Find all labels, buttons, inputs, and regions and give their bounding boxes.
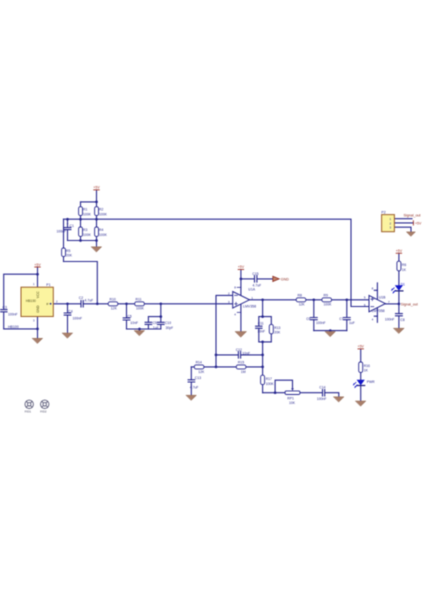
ground under C5 bar [134,331,144,336]
wire U1B output [385,303,399,305]
svg-text:FID2: FID2 [40,410,47,414]
junction C6/C7 ground bar [329,329,332,332]
svg-text:4: 4 [234,312,236,316]
wire R14/R15 row [191,366,262,368]
svg-text:U1B: U1B [379,296,386,300]
LED D1 [392,283,405,293]
power +5V U1A [238,265,245,270]
wire ground stub under R4 [96,241,98,247]
wire main row P1.IF to C2 [53,303,81,305]
svg-text:+5V: +5V [415,222,422,226]
svg-text:VCC: VCC [36,291,40,299]
power GND arrow at C15 [273,276,289,281]
wire P2 pin1 [394,218,412,220]
ground under C8 [394,328,405,333]
svg-text:R4: R4 [99,228,103,232]
svg-text:1K: 1K [402,268,407,272]
svg-text:100K: 100K [99,212,108,216]
svg-text:1uF: 1uF [349,321,355,325]
svg-text:100K: 100K [324,303,333,307]
junction R3 bottom [79,239,82,242]
wire feedback loop to C12 row [262,342,264,367]
svg-text:100K: 100K [83,233,92,237]
svg-text:P2: P2 [381,211,385,215]
junction C1 top [66,218,69,221]
wire U1B power ticks [374,290,377,316]
svg-text:+5V: +5V [358,345,365,349]
wire C5 branch upper [126,304,128,318]
GROUND SYMBOLS [32,232,415,406]
capacitor C4 [64,313,71,315]
svg-text:20K: 20K [66,254,73,258]
svg-text:100nF: 100nF [316,321,326,325]
svg-text:100K: 100K [136,307,145,311]
junction C5 tap [125,302,128,305]
svg-text:10nF: 10nF [242,351,250,355]
svg-text:C11: C11 [258,321,264,325]
resistor R2 [95,207,99,216]
wire U1B power column [376,283,378,322]
svg-text:12K: 12K [299,303,306,307]
wire main row C2 to U1A pin3 [83,303,232,305]
wire PWR +5V to R16 [360,349,362,362]
capacitor C3 [0,310,7,312]
wire C15 to GND port [257,278,273,280]
junction R1 bottom [79,218,82,221]
wire C5 branch lower [126,320,128,329]
svg-text:100nF: 100nF [385,318,395,322]
svg-text:12K: 12K [198,370,205,374]
svg-text:R1: R1 [83,208,87,212]
ground under U1A [235,332,246,338]
wire C13 branch upper [190,367,192,380]
svg-text:4.7uF: 4.7uF [253,284,262,288]
wire C7 branch upper [346,300,348,318]
connector P2 [381,211,394,232]
resistor R14 [194,365,204,369]
svg-text:R10: R10 [110,298,116,302]
junction C7 tap [345,298,348,301]
svg-text:30pF: 30pF [166,326,174,330]
junction bias tap [96,302,99,305]
junction feedback loop top [261,315,264,318]
wire C10 branch upper [160,304,162,322]
resistor R6 [397,261,401,271]
wire left column to R5 [63,219,65,261]
wire P1 left loop lower from C3 [4,312,38,329]
wire feedback loop right with R13 [263,317,272,342]
power +5V P2 pin2 bar [413,220,422,225]
wire P2 pin2 to +5V bar [394,222,413,224]
svg-text:C10: C10 [165,321,171,325]
svg-text:20K: 20K [274,331,281,335]
wire C4 branch lower to ground [67,315,69,333]
svg-text:C8: C8 [400,318,404,322]
junction R2 bottom [95,218,98,221]
svg-text:C5: C5 [127,314,131,318]
svg-text:C9: C9 [153,321,157,325]
op-amp U1B [364,287,390,322]
junction P1 bottom pin [36,328,39,331]
DIODES [353,283,405,388]
svg-text:100nF: 100nF [8,312,18,316]
wire R5 jog down to main row [64,262,98,304]
svg-text:HB100: HB100 [26,299,36,303]
wire C13 branch lower to ground [190,382,192,395]
wire U1A decoupling row to C15 [241,278,254,280]
capacitor C10 [158,322,165,324]
wire R17 branch [262,367,264,393]
junction R15 row left [215,366,218,369]
wire P1 bottom pin to ground [37,317,39,339]
svg-text:+5V: +5V [396,249,403,253]
wire ground stub C6/C7 bar [329,330,331,333]
svg-text:C7: C7 [339,317,343,321]
wire RP1 wiper loop [275,380,292,393]
svg-text:C4: C4 [68,309,72,313]
junction ground bar left [138,328,141,331]
ground under R4 [91,247,101,252]
wire feedback loop left lower [259,329,263,342]
svg-text:C1: C1 [70,224,74,228]
junction U1A output [261,298,264,301]
svg-text:10nF: 10nF [257,329,265,333]
svg-text:R3: R3 [83,228,87,232]
svg-text:3: 3 [33,318,35,322]
wire P2 pin3 to ground [394,227,411,232]
potentiometer RP1 [285,387,300,405]
capacitor C14 [323,390,325,396]
junction P1 top pin [36,273,39,276]
resistor R13 [269,324,273,333]
svg-text:4: 4 [372,317,374,321]
svg-text:10K: 10K [289,401,296,405]
svg-text:10nF: 10nF [130,321,138,325]
wire C4 branch upper [67,304,69,313]
svg-text:+5V: +5V [34,263,41,267]
svg-text:1K: 1K [364,369,369,373]
wire P1 left loop upper to C3 [4,274,38,309]
svg-text:Signal_out: Signal_out [404,213,421,217]
svg-text:1: 1 [33,282,35,286]
ground under C6/C7 bar [325,332,335,337]
junction C9 loop top [159,315,162,318]
svg-text:LMV358: LMV358 [243,305,256,309]
svg-text:C3: C3 [3,306,7,310]
resistor R11 [135,302,145,306]
svg-text:100K: 100K [99,233,108,237]
svg-text:+5V: +5V [93,186,100,190]
svg-text:R9: R9 [324,294,328,298]
wire R1 column [80,202,82,219]
junction divider top [95,201,98,204]
svg-text:Signal_out: Signal_out [401,303,418,307]
wire C12 row right [241,354,263,356]
svg-text:FID1: FID1 [25,410,32,414]
svg-text:R17: R17 [266,377,272,381]
ground P2 pin3 [407,232,416,236]
wire U1A power column [240,270,242,332]
capacitor C15 [255,276,257,282]
wire ground stub mid bar [139,329,141,331]
wire C12 row left [216,354,238,356]
wire C10 branch lower [160,325,162,329]
wire C8 branch lower to ground [398,316,400,328]
junction U1B output node [398,303,401,306]
svg-text:C2: C2 [79,296,83,300]
svg-text:12K: 12K [111,307,118,311]
svg-text:R11: R11 [136,298,142,302]
junction C6 tap [312,298,315,301]
svg-text:R15: R15 [238,361,244,365]
wire R16 to D2 [360,372,362,379]
svg-text:R8: R8 [298,294,302,298]
wire R2 column [96,202,98,219]
LED D2 PWR [353,380,375,388]
capacitor C11 [256,326,262,328]
wire C6 branch lower [313,320,315,331]
capacitor C13 [188,380,195,382]
wire C14 to ground [325,393,339,397]
ground under PWR LED [356,401,366,406]
wire U1A pin2 feedback rail [216,295,233,367]
svg-text:R2: R2 [99,208,103,212]
svg-text:GND: GND [36,305,40,313]
wire C6/C7 ground bar [314,330,347,332]
connector P1 HB100 module [8,282,58,329]
capacitor C7 [343,318,350,320]
svg-text:C13: C13 [195,376,201,380]
resistor R8 [296,298,306,302]
resistor R15 [236,365,246,369]
ground under C13 [186,395,196,400]
junction C12 row left [215,354,218,357]
wire long top rail to U1B pin6 [64,219,370,306]
capacitor C5 [123,318,130,320]
wire C9 loop lower [147,325,149,329]
svg-text:D1: D1 [401,283,405,287]
wire +5V stub to divider top [96,190,98,202]
svg-text:R16: R16 [364,364,370,368]
wire divider bottom bar [68,240,97,242]
svg-text:R6: R6 [402,263,406,267]
CAPACITOR PLATES [0,228,402,396]
capacitor C1 [64,228,71,230]
svg-text:R14: R14 [196,361,202,365]
svg-text:100K: 100K [83,212,92,216]
power +5V PWR [358,345,365,350]
wire C5/C9/C10 ground bar [127,328,161,330]
wire R4 branch [96,219,98,240]
wire R8 to R9 [306,299,322,301]
wire D1 to output node [398,291,400,304]
svg-text:C6: C6 [306,317,310,321]
svg-text:GND: GND [281,277,289,281]
svg-text:PWR: PWR [367,380,375,384]
wire R6 to D1 [398,271,400,285]
power +5V P1 [34,263,41,268]
resistor R5 [62,248,66,257]
wire +5V stub to P1 top pin [37,267,39,287]
svg-text:1uF: 1uF [153,326,159,330]
svg-text:100uF: 100uF [57,229,67,233]
resistor R1 [79,207,83,216]
resistor R3 [79,227,83,236]
capacitor C8 [396,314,403,316]
junction C4 tap [66,302,69,305]
wire U1A output to feedback loop [262,300,264,317]
wire C7 branch lower [346,320,348,331]
svg-text:2: 2 [56,300,58,304]
capacitor C2 [81,301,83,307]
svg-text:8: 8 [372,287,374,291]
svg-text:7: 7 [388,300,390,304]
svg-text:P1: P1 [46,283,50,287]
POWER SYMBOLS [34,186,422,350]
capacitor C9 [145,322,152,324]
junction R15 row right [261,366,264,369]
resistor R16 [359,362,363,372]
wire C9 loop upper [148,317,160,323]
resistor R9 [322,298,332,302]
svg-text:C12: C12 [236,348,242,352]
svg-text:+5V: +5V [238,265,245,269]
resistor R10 [108,302,118,306]
wire D2 to ground [360,386,362,401]
capacitor C6 [310,318,317,320]
junction R4 bottom [95,239,98,242]
svg-text:4.7uF: 4.7uF [85,298,94,302]
svg-text:8: 8 [234,286,236,290]
svg-text:R13: R13 [274,326,280,330]
svg-text:LMV358: LMV358 [372,309,385,313]
svg-text:HB100: HB100 [8,325,19,329]
fiducial FID2 [40,400,49,414]
svg-text:100nF: 100nF [317,397,327,401]
ground under C4 [62,333,72,338]
power +5V D1 [396,249,403,254]
svg-text:IF: IF [46,302,49,306]
wire R9 to U1B pin5 [331,299,370,301]
junction C12 row right [261,354,264,357]
wire C1 branch lower [67,230,69,241]
fiducial FID1 [25,400,34,414]
svg-text:4.7uF: 4.7uF [190,386,199,390]
ground after C14 [334,397,344,402]
OP-AMPS [228,286,390,322]
svg-text:1M: 1M [241,370,246,374]
power +5V divider [93,186,100,191]
wire divider top horizontal [81,201,97,203]
resistor R17 [261,375,265,384]
wire R3 branch [80,219,82,240]
wire feedback loop left with C11 [259,317,263,326]
wire C1 branch upper [67,219,69,227]
junction C9/C10 tap [159,302,162,305]
svg-text:100K: 100K [266,382,275,386]
svg-text:R5: R5 [66,249,70,253]
junction RP1 left [274,391,277,394]
capacitor C12 [238,352,240,358]
svg-text:U1A: U1A [248,288,255,292]
wire U1A output row [250,299,297,301]
svg-text:100nF: 100nF [73,317,83,321]
wire RP1 to C14 [300,392,322,394]
RESISTORS [62,207,401,385]
wire D1 +5V stub [398,253,400,261]
svg-text:5: 5 [364,295,366,299]
wire C6 branch upper [313,300,315,318]
resistor R4 [95,227,99,236]
junction feedback loop bottom [261,341,264,344]
wire C8 branch upper [398,304,400,314]
svg-text:C14: C14 [319,385,325,389]
junction U1A decoupling [240,278,243,281]
svg-text:C15: C15 [252,272,258,276]
ground under P1 [32,338,42,343]
wire R17 to RP1 [263,392,286,394]
op-amp U1A [228,286,256,317]
